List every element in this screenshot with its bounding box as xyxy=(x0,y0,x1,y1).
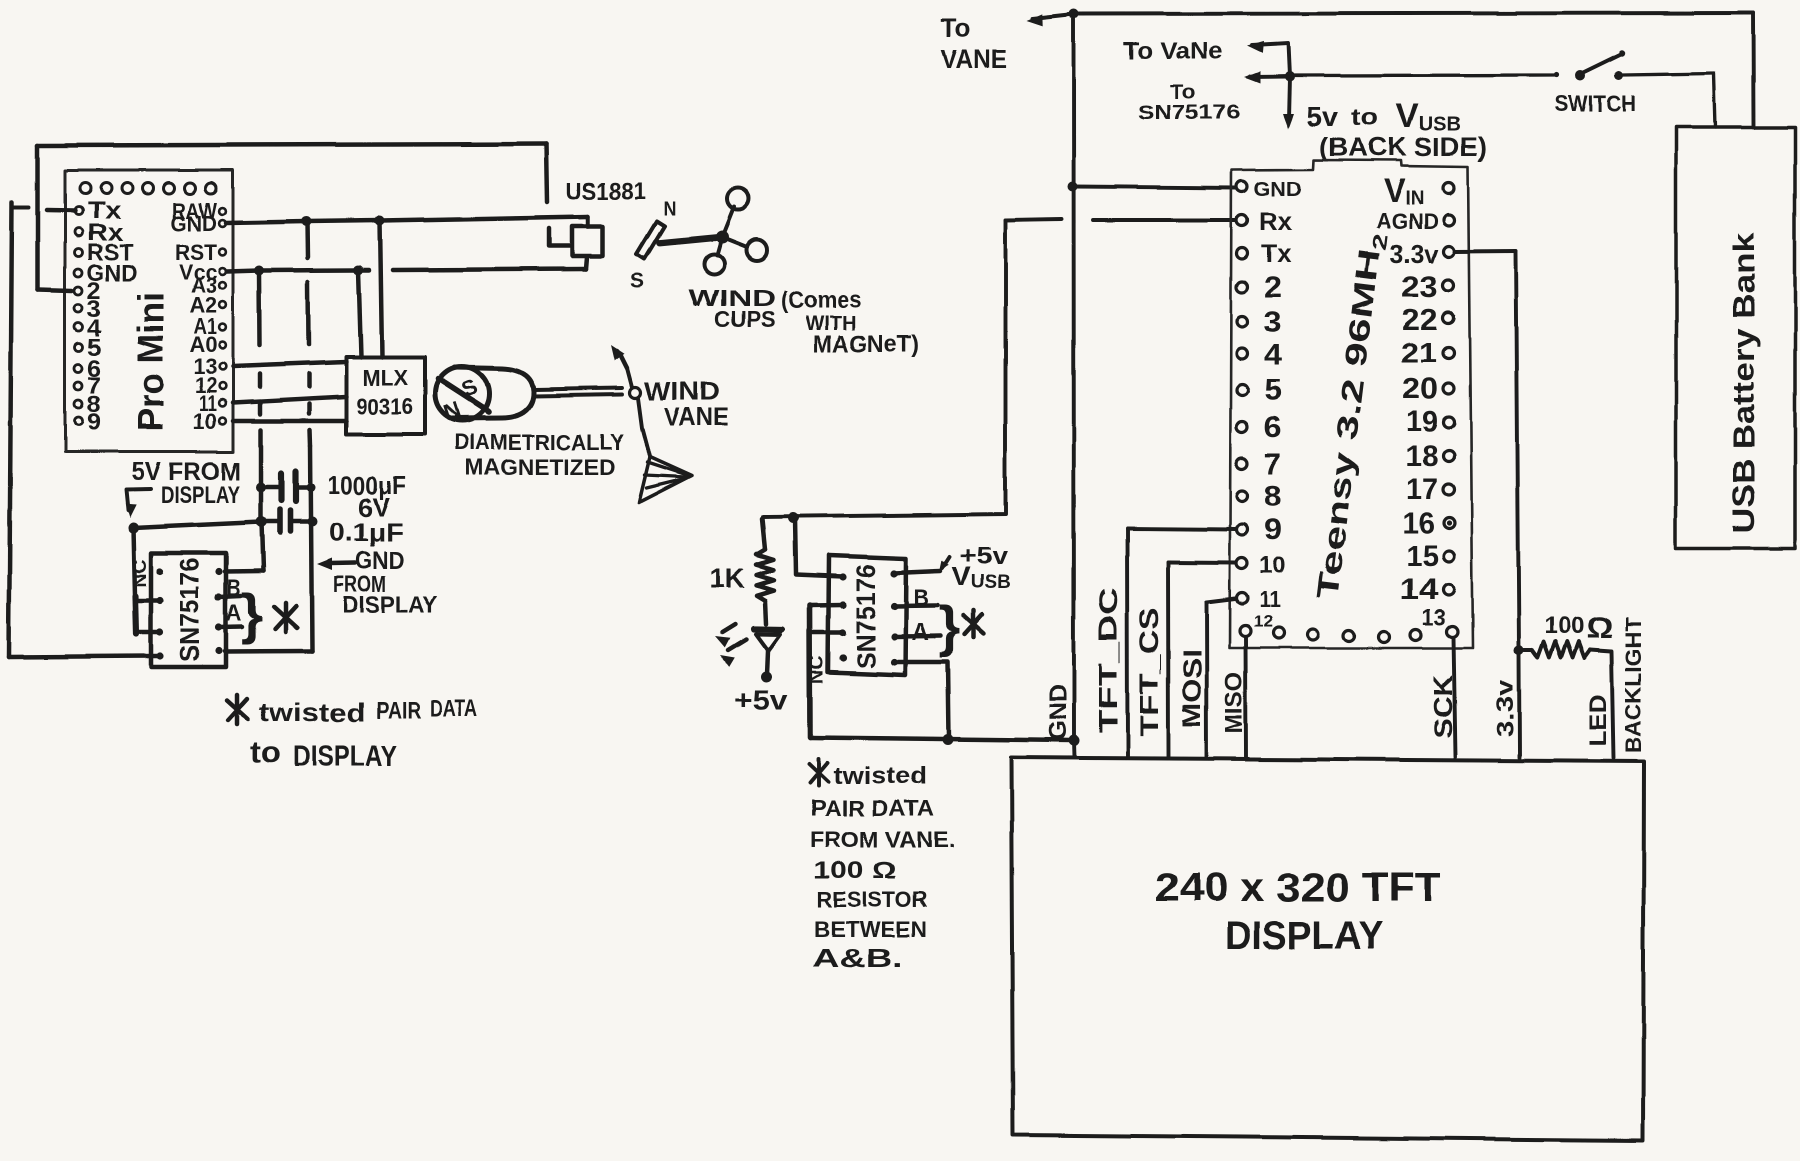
wire to SN75176 pin 5 xyxy=(225,649,312,654)
wire left frame down to pin 2 xyxy=(36,146,40,291)
wind cups arm 1 xyxy=(722,207,734,237)
Teensy 3.2 body xyxy=(1230,160,1473,648)
wire Tx pin stub xyxy=(47,208,75,213)
svg-text:RESISTOR: RESISTOR xyxy=(817,887,927,912)
svg-text:S: S xyxy=(631,270,645,293)
svg-text:10: 10 xyxy=(193,409,217,434)
junction GND rail display xyxy=(1069,735,1080,746)
svg-text:MAGNETIZED: MAGNETIZED xyxy=(465,455,615,480)
svg-text:MOSI: MOSI xyxy=(1177,649,1207,728)
Pro Mini left pin holes xyxy=(75,207,83,426)
svg-text:SN75176: SN75176 xyxy=(175,558,205,662)
capacitor C2 0.1uF leads xyxy=(262,520,280,524)
capacitor C1 plates xyxy=(278,474,284,501)
wire GND to MLX xyxy=(380,221,382,358)
wire GND bottom rail xyxy=(811,738,1075,741)
wind cups cup 3 xyxy=(704,254,724,274)
wire vane shaft double line xyxy=(533,388,622,390)
wire Teensy 10 TFT_CS xyxy=(1168,561,1236,565)
wire GND trunk vertical xyxy=(1072,14,1076,741)
svg-text:DISPLAY: DISPLAY xyxy=(342,592,438,619)
junction switch node xyxy=(1285,72,1295,82)
svg-text:SWITCH: SWITCH xyxy=(1554,90,1636,116)
wire top frame from Pro Mini area to US1881 xyxy=(38,144,546,146)
svg-text:SCK: SCK xyxy=(1428,675,1458,739)
wire Rx node to pin1 xyxy=(795,518,796,574)
svg-text:AGND: AGND xyxy=(1376,209,1438,234)
wire LED backlight into display xyxy=(1612,652,1614,759)
svg-text:To: To xyxy=(1170,82,1196,104)
svg-text:17: 17 xyxy=(1406,473,1438,506)
Teensy left pin labels xyxy=(1253,178,1302,631)
svg-text:100: 100 xyxy=(1544,613,1584,640)
wire far-left vertical (Tx net to SN75176 pin4) xyxy=(9,202,12,657)
wire Pro Mini 13 to MLX xyxy=(233,362,346,367)
Teensy right pin holes xyxy=(1443,183,1454,596)
wire Teensy 9 TFT_DC xyxy=(1127,529,1236,530)
svg-text:100 Ω: 100 Ω xyxy=(814,857,896,884)
svg-text:GND: GND xyxy=(1254,178,1302,201)
SN75176 #2 left pins xyxy=(839,573,846,661)
wind cups cup 1 xyxy=(727,188,749,210)
svg-text:Rx: Rx xyxy=(1259,208,1292,236)
wire Teensy 13 SCK xyxy=(1454,638,1456,758)
note twisted pair to display xyxy=(227,700,248,719)
svg-text:21: 21 xyxy=(1401,337,1437,368)
svg-text:5: 5 xyxy=(1264,374,1282,407)
svg-text:A: A xyxy=(226,600,242,627)
wire pin A stub #1 xyxy=(219,625,242,630)
junction GND-A xyxy=(301,217,311,227)
svg-text:VANE: VANE xyxy=(664,402,729,432)
wind cups shaft to magnet xyxy=(660,237,722,243)
SN75176 #2 right pins xyxy=(890,570,897,666)
asterisk #2 xyxy=(964,616,984,634)
svg-text:PAIR: PAIR xyxy=(376,697,421,724)
wire 3.3v into display xyxy=(1517,650,1521,758)
svg-text:USB Battery Bank: USB Battery Bank xyxy=(1726,232,1761,533)
svg-text:90316: 90316 xyxy=(356,393,413,419)
wire GND trunk into display xyxy=(1072,741,1076,758)
svg-text:240 x 320 TFT: 240 x 320 TFT xyxy=(1155,866,1442,910)
switch lever xyxy=(1581,54,1622,74)
svg-text:Tx: Tx xyxy=(1261,240,1291,268)
svg-text:(Comes: (Comes xyxy=(780,287,861,314)
svg-text:14: 14 xyxy=(1400,573,1438,606)
note twisted pair from vane xyxy=(809,764,828,782)
wire GND rail vertical (with crossover breaks) xyxy=(305,222,310,258)
svg-text:2: 2 xyxy=(1264,271,1282,304)
svg-text:PAIR DATA: PAIR DATA xyxy=(810,796,934,821)
wind vane tail sail xyxy=(639,457,692,503)
svg-text:DISPLAY: DISPLAY xyxy=(293,740,397,773)
svg-text:(BACK SIDE): (BACK SIDE) xyxy=(1319,132,1487,162)
wire Pro Mini Vcc to right xyxy=(227,270,369,272)
Teensy bottom pin holes xyxy=(1240,626,1459,643)
svg-text:9: 9 xyxy=(87,409,101,436)
svg-text:VANE: VANE xyxy=(941,44,1007,74)
Pro Mini left pin labels Tx Rx RST GND 2-9 xyxy=(87,197,137,436)
svg-text:0.1μF: 0.1μF xyxy=(329,517,403,547)
svg-text:twisted: twisted xyxy=(833,763,927,790)
wind cups hub xyxy=(716,231,729,244)
wind vane pole xyxy=(627,368,632,387)
svg-text:TFT_DC: TFT_DC xyxy=(1093,587,1123,733)
svg-text:DATA: DATA xyxy=(430,695,478,722)
svg-text:9: 9 xyxy=(1264,514,1282,547)
display 240x320 TFT body xyxy=(1011,758,1644,1141)
Pro Mini right pin labels RAW GND RST Vcc A3-A0 13-10 xyxy=(171,198,218,434)
wind vane pivot xyxy=(630,387,641,398)
svg-text:10: 10 xyxy=(1259,552,1286,578)
svg-text:CUPS: CUPS xyxy=(715,306,775,332)
wire 5V to RE/DE bar xyxy=(133,528,135,596)
Pro Mini top header holes xyxy=(80,183,217,194)
wire US1881 left L-stub xyxy=(549,228,571,246)
svg-text:23: 23 xyxy=(1402,271,1438,304)
capacitor C1 1000uF leads xyxy=(261,485,281,489)
wire to-vane arrow 1 xyxy=(1247,41,1264,53)
wire Teensy GND pin xyxy=(1074,187,1236,189)
wire Rx drop to receiver xyxy=(763,221,1006,518)
switch terminal right xyxy=(1615,71,1624,80)
svg-text:N: N xyxy=(663,199,676,220)
svg-text:3.3v: 3.3v xyxy=(1492,679,1519,737)
wire to switch xyxy=(1293,73,1554,77)
junction Vcc-B xyxy=(354,265,364,275)
wire switch to battery xyxy=(1623,74,1713,76)
svg-text:6: 6 xyxy=(1264,411,1282,444)
wire Pro Mini 10 to MLX xyxy=(233,419,346,423)
junction 3.3v node xyxy=(1514,645,1524,655)
junction receiver node xyxy=(788,513,799,524)
svg-text:16: 16 xyxy=(1402,507,1434,540)
svg-text:18: 18 xyxy=(1406,440,1438,473)
wire Vcc to MLX xyxy=(359,270,362,357)
svg-text:GND: GND xyxy=(171,211,217,236)
SN75176 #1 left pins xyxy=(156,568,163,660)
svg-text:Pro Mini: Pro Mini xyxy=(130,292,171,432)
svg-text:+5v: +5v xyxy=(734,685,788,716)
wind cups cup 2 xyxy=(747,240,768,261)
svg-text:SN75176: SN75176 xyxy=(851,564,881,668)
svg-text:To VaNe: To VaNe xyxy=(1123,38,1223,65)
svg-text:BACKLIGHT: BACKLIGHT xyxy=(1621,617,1646,753)
junction GND-B xyxy=(375,216,385,226)
junction C1 right xyxy=(307,484,316,493)
svg-text:}: } xyxy=(939,595,961,658)
svg-text:DISPLAY: DISPLAY xyxy=(161,482,240,509)
arrow to vane (top left) xyxy=(1026,14,1042,26)
SN75176 #1 right pins xyxy=(215,568,222,655)
svg-text:BETWEEN: BETWEEN xyxy=(814,917,927,942)
LED arrows xyxy=(722,624,735,632)
svg-text:TFT_CS: TFT_CS xyxy=(1134,608,1164,736)
asterisk #1 xyxy=(274,607,297,628)
wire Pro Mini 11 to MLX xyxy=(233,397,346,403)
wire to SN75176 pin 8 xyxy=(225,569,263,574)
junction C2 left xyxy=(256,517,267,528)
wire bottom-left to SN75176 pin 4 xyxy=(9,656,157,657)
transceiver SN75176 #1 body xyxy=(151,553,226,667)
LED terminal dot xyxy=(761,672,772,683)
angle sensor MLX90316 body xyxy=(346,357,425,434)
svg-text:US1881: US1881 xyxy=(566,178,646,205)
wire far-left corner tick xyxy=(12,205,29,209)
svg-text:FROM VANE.: FROM VANE. xyxy=(810,827,955,852)
Teensy left pin holes xyxy=(1237,181,1248,604)
transceiver SN75176 #2 body xyxy=(828,556,906,676)
wire top rail to battery xyxy=(1751,13,1755,127)
wire 5V rail horizontal xyxy=(133,522,262,528)
junction GND pin5 #2 xyxy=(943,734,954,745)
Teensy pin16 dot xyxy=(1446,520,1451,525)
svg-text:DISPLAY: DISPLAY xyxy=(1225,914,1383,958)
svg-text:3: 3 xyxy=(1264,306,1282,339)
svg-text:to: to xyxy=(250,736,281,769)
svg-text:8: 8 xyxy=(1264,480,1282,513)
wire RE-DE tie bar #1 xyxy=(135,596,136,634)
capacitor C2 plates xyxy=(277,510,283,533)
svg-text:13: 13 xyxy=(1422,604,1446,630)
junction Vcc-A xyxy=(254,266,264,276)
svg-text:GND: GND xyxy=(1045,684,1072,741)
svg-text:B: B xyxy=(913,585,929,612)
wire 5V rail vertical (with crossover breaks) xyxy=(257,271,262,345)
svg-text:3.3v: 3.3v xyxy=(1390,239,1439,269)
svg-text:20: 20 xyxy=(1402,372,1438,405)
svg-text:NC: NC xyxy=(130,559,150,587)
svg-text:To: To xyxy=(941,13,971,43)
wire Teensy 11 MOSI xyxy=(1207,599,1236,603)
svg-text:A&B.: A&B. xyxy=(812,943,903,973)
svg-text:MLX: MLX xyxy=(362,365,408,390)
LED D1 xyxy=(754,626,782,633)
svg-text:B: B xyxy=(227,575,241,602)
svg-text:SN75176: SN75176 xyxy=(1138,102,1240,124)
svg-text:12: 12 xyxy=(1253,612,1273,631)
hall sensor US1881 body xyxy=(572,226,603,256)
wire pin B stub #1 xyxy=(219,596,241,597)
svg-text:11: 11 xyxy=(1259,586,1281,612)
wire pin5 GND #2 xyxy=(894,662,950,738)
resistor 1K chain xyxy=(762,519,765,549)
svg-text:LED: LED xyxy=(1585,694,1612,746)
wire Teensy Rx segment b xyxy=(1093,218,1236,222)
svg-text:4: 4 xyxy=(1264,339,1282,372)
svg-text:7: 7 xyxy=(1264,448,1282,481)
wire RE-DE tie bar #2 xyxy=(807,605,813,737)
magnet slash xyxy=(438,379,489,412)
battery USB power bank body xyxy=(1676,127,1795,548)
wire 5v down arrow xyxy=(1289,77,1290,121)
wire Teensy Rx segment a xyxy=(1006,220,1063,221)
wire top rail xyxy=(1032,13,1753,19)
svg-text:19: 19 xyxy=(1406,405,1438,438)
arrow GND from display xyxy=(317,558,332,570)
wire to-vane arrow 2 xyxy=(1244,72,1260,84)
Pro Mini right pin holes xyxy=(219,208,226,425)
svg-text:twisted: twisted xyxy=(259,697,366,727)
Arduino Pro Mini body xyxy=(65,170,233,452)
junction C2 right xyxy=(308,517,318,527)
svg-text:MAGNeT): MAGNeT) xyxy=(813,331,919,358)
junction top rail xyxy=(1069,9,1079,19)
svg-text:to: to xyxy=(1351,104,1378,131)
junction C1 left xyxy=(256,483,266,493)
wire 5V-from-display with arrow xyxy=(126,489,151,510)
wire 3.3v from Teensy xyxy=(1455,249,1516,253)
reed magnet bar xyxy=(637,221,665,259)
switch terminal left xyxy=(1575,71,1585,81)
wire Vcc pin8 #2 xyxy=(894,571,941,573)
wind cups arm 2 xyxy=(722,237,747,247)
svg-text:A: A xyxy=(911,619,929,646)
Teensy right pin labels xyxy=(1376,209,1439,606)
junction 5V node xyxy=(128,523,139,534)
magnet end view circle xyxy=(435,367,489,421)
svg-text:15: 15 xyxy=(1406,540,1438,573)
wind vane pointer arrow xyxy=(617,351,627,368)
svg-text:5v: 5v xyxy=(1306,101,1338,132)
svg-text:MISO: MISO xyxy=(1221,672,1248,734)
wire Pro Mini GND to right (junctions) xyxy=(226,217,588,224)
wind cups arm 3 xyxy=(717,237,722,255)
resistor 100 ohm xyxy=(1524,648,1532,652)
wire pin B stub #2 xyxy=(894,604,938,609)
wire Teensy 12 MISO xyxy=(1244,637,1248,757)
svg-text:1K: 1K xyxy=(709,563,745,594)
junction GND at Teensy xyxy=(1068,182,1078,192)
svg-text:DIAMETRICALLY: DIAMETRICALLY xyxy=(454,430,624,455)
svg-text:}: } xyxy=(241,582,263,645)
wire pin A stub #2 xyxy=(894,634,941,639)
svg-text:Ω: Ω xyxy=(1586,612,1613,645)
wire US1881 frame vertical xyxy=(546,144,547,202)
switch feed dot xyxy=(1554,72,1559,77)
magnet cylinder body xyxy=(452,368,533,419)
svg-text:22: 22 xyxy=(1402,304,1438,337)
